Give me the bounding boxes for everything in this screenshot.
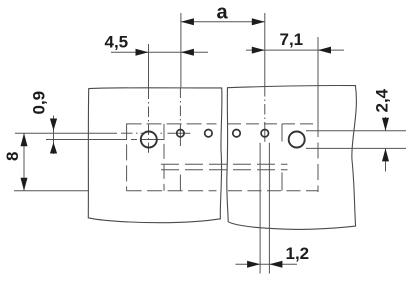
hidden inner edge vertical right — [281, 124, 283, 191]
vertical centerline pin 4 — [264, 86, 266, 142]
dimension 8: extension line bottom — [14, 190, 89, 192]
panel outline left (sketchy square) — [88, 88, 222, 223]
pin hole 1 — [177, 130, 184, 137]
dimension 8: arrow bottom (inside, pointing down) — [21, 178, 28, 191]
dimension 2,4: arrow carrier line bottom — [385, 148, 387, 171]
hidden outline dashed box: bottom edge — [127, 190, 217, 192]
svg-text:4,5: 4,5 — [105, 33, 129, 52]
vertical centerline flange hole left — [148, 88, 150, 153]
dimension a: extension line right — [264, 13, 266, 86]
flange hole left — [141, 132, 157, 148]
hidden step line upper — [161, 163, 288, 165]
dimension 2,4: extension line bottom — [306, 147, 406, 149]
dimension 7,1: extension line right — [317, 37, 319, 123]
pin hole 2 — [205, 130, 212, 137]
dimension 7,1: dimension line with tails — [246, 49, 344, 51]
dimension 1,2: extension line right — [268, 143, 270, 274]
dimension 1,2: arrow right (outside, pointing left) — [269, 261, 282, 268]
svg-text:7,1: 7,1 — [280, 30, 304, 49]
pin hole 4 — [261, 130, 268, 137]
dimension 0,9: arrow top (outside, pointing down) — [50, 119, 57, 131]
dimension 7,1: arrow right (outside, pointing left) — [318, 47, 331, 54]
dimension a: extension line left — [180, 13, 182, 88]
dimension a: dimension line — [181, 21, 265, 23]
flange hole right — [289, 132, 305, 148]
dimension 4,5: arrow right (outside, pointing left) — [181, 49, 194, 56]
hidden outline dashed box: left edge — [126, 123, 128, 190]
dimension 0,9: arrow bottom (outside, pointing up) — [50, 142, 57, 153]
vertical centerline pin 1 — [179, 88, 181, 147]
hidden step line lower — [161, 169, 288, 171]
dimension 0,9: arrow carrier line — [53, 116, 55, 155]
dimension 2,4: arrow bottom (outside, pointing up) — [382, 148, 389, 161]
centerline of flange hole (horizontal dash-dot, left) — [46, 139, 127, 141]
svg-text:0,9: 0,9 — [30, 91, 49, 115]
hidden outline dashed box: top edge — [127, 123, 217, 125]
dimension 1,2: extension line left (tangent of pin hole) — [259, 143, 261, 274]
dimension 7,1: arrow left (outside, pointing right) — [252, 47, 265, 54]
hidden inner edge vertical left — [163, 124, 165, 191]
dimension 2,4: arrow top (outside, pointing down) — [382, 118, 389, 131]
dimension 8: dimension line — [23, 133, 25, 191]
dimension a: arrow left — [181, 18, 194, 25]
dimension 2,4: arrow carrier line top — [385, 117, 387, 131]
hidden outline dashed box: right edge — [317, 121, 319, 192]
pin hole 3 — [233, 130, 240, 137]
svg-text:a: a — [217, 2, 229, 24]
svg-text:2,4: 2,4 — [373, 88, 392, 112]
svg-text:8: 8 — [3, 152, 22, 161]
centerline of pin holes (horizontal dash-dot) — [15, 132, 117, 134]
dimension a: arrow right — [252, 18, 265, 25]
panel outline right (sketchy square) — [227, 86, 357, 230]
dimension 1,2: arrow left (outside, pointing right) — [247, 261, 260, 268]
dimension 4,5: arrow left (outside, pointing right) — [136, 49, 149, 56]
dimension 4,5: extension line left — [148, 44, 150, 88]
dimension 2,4: extension line top (tangent of flange hole) — [306, 130, 406, 132]
dimension 8: arrow top (inside, pointing up) — [21, 133, 28, 146]
svg-text:1,2: 1,2 — [286, 244, 310, 263]
dimension 1,2: dimension line with tails — [236, 263, 298, 265]
dimension 4,5: dimension line with tails — [111, 51, 208, 53]
